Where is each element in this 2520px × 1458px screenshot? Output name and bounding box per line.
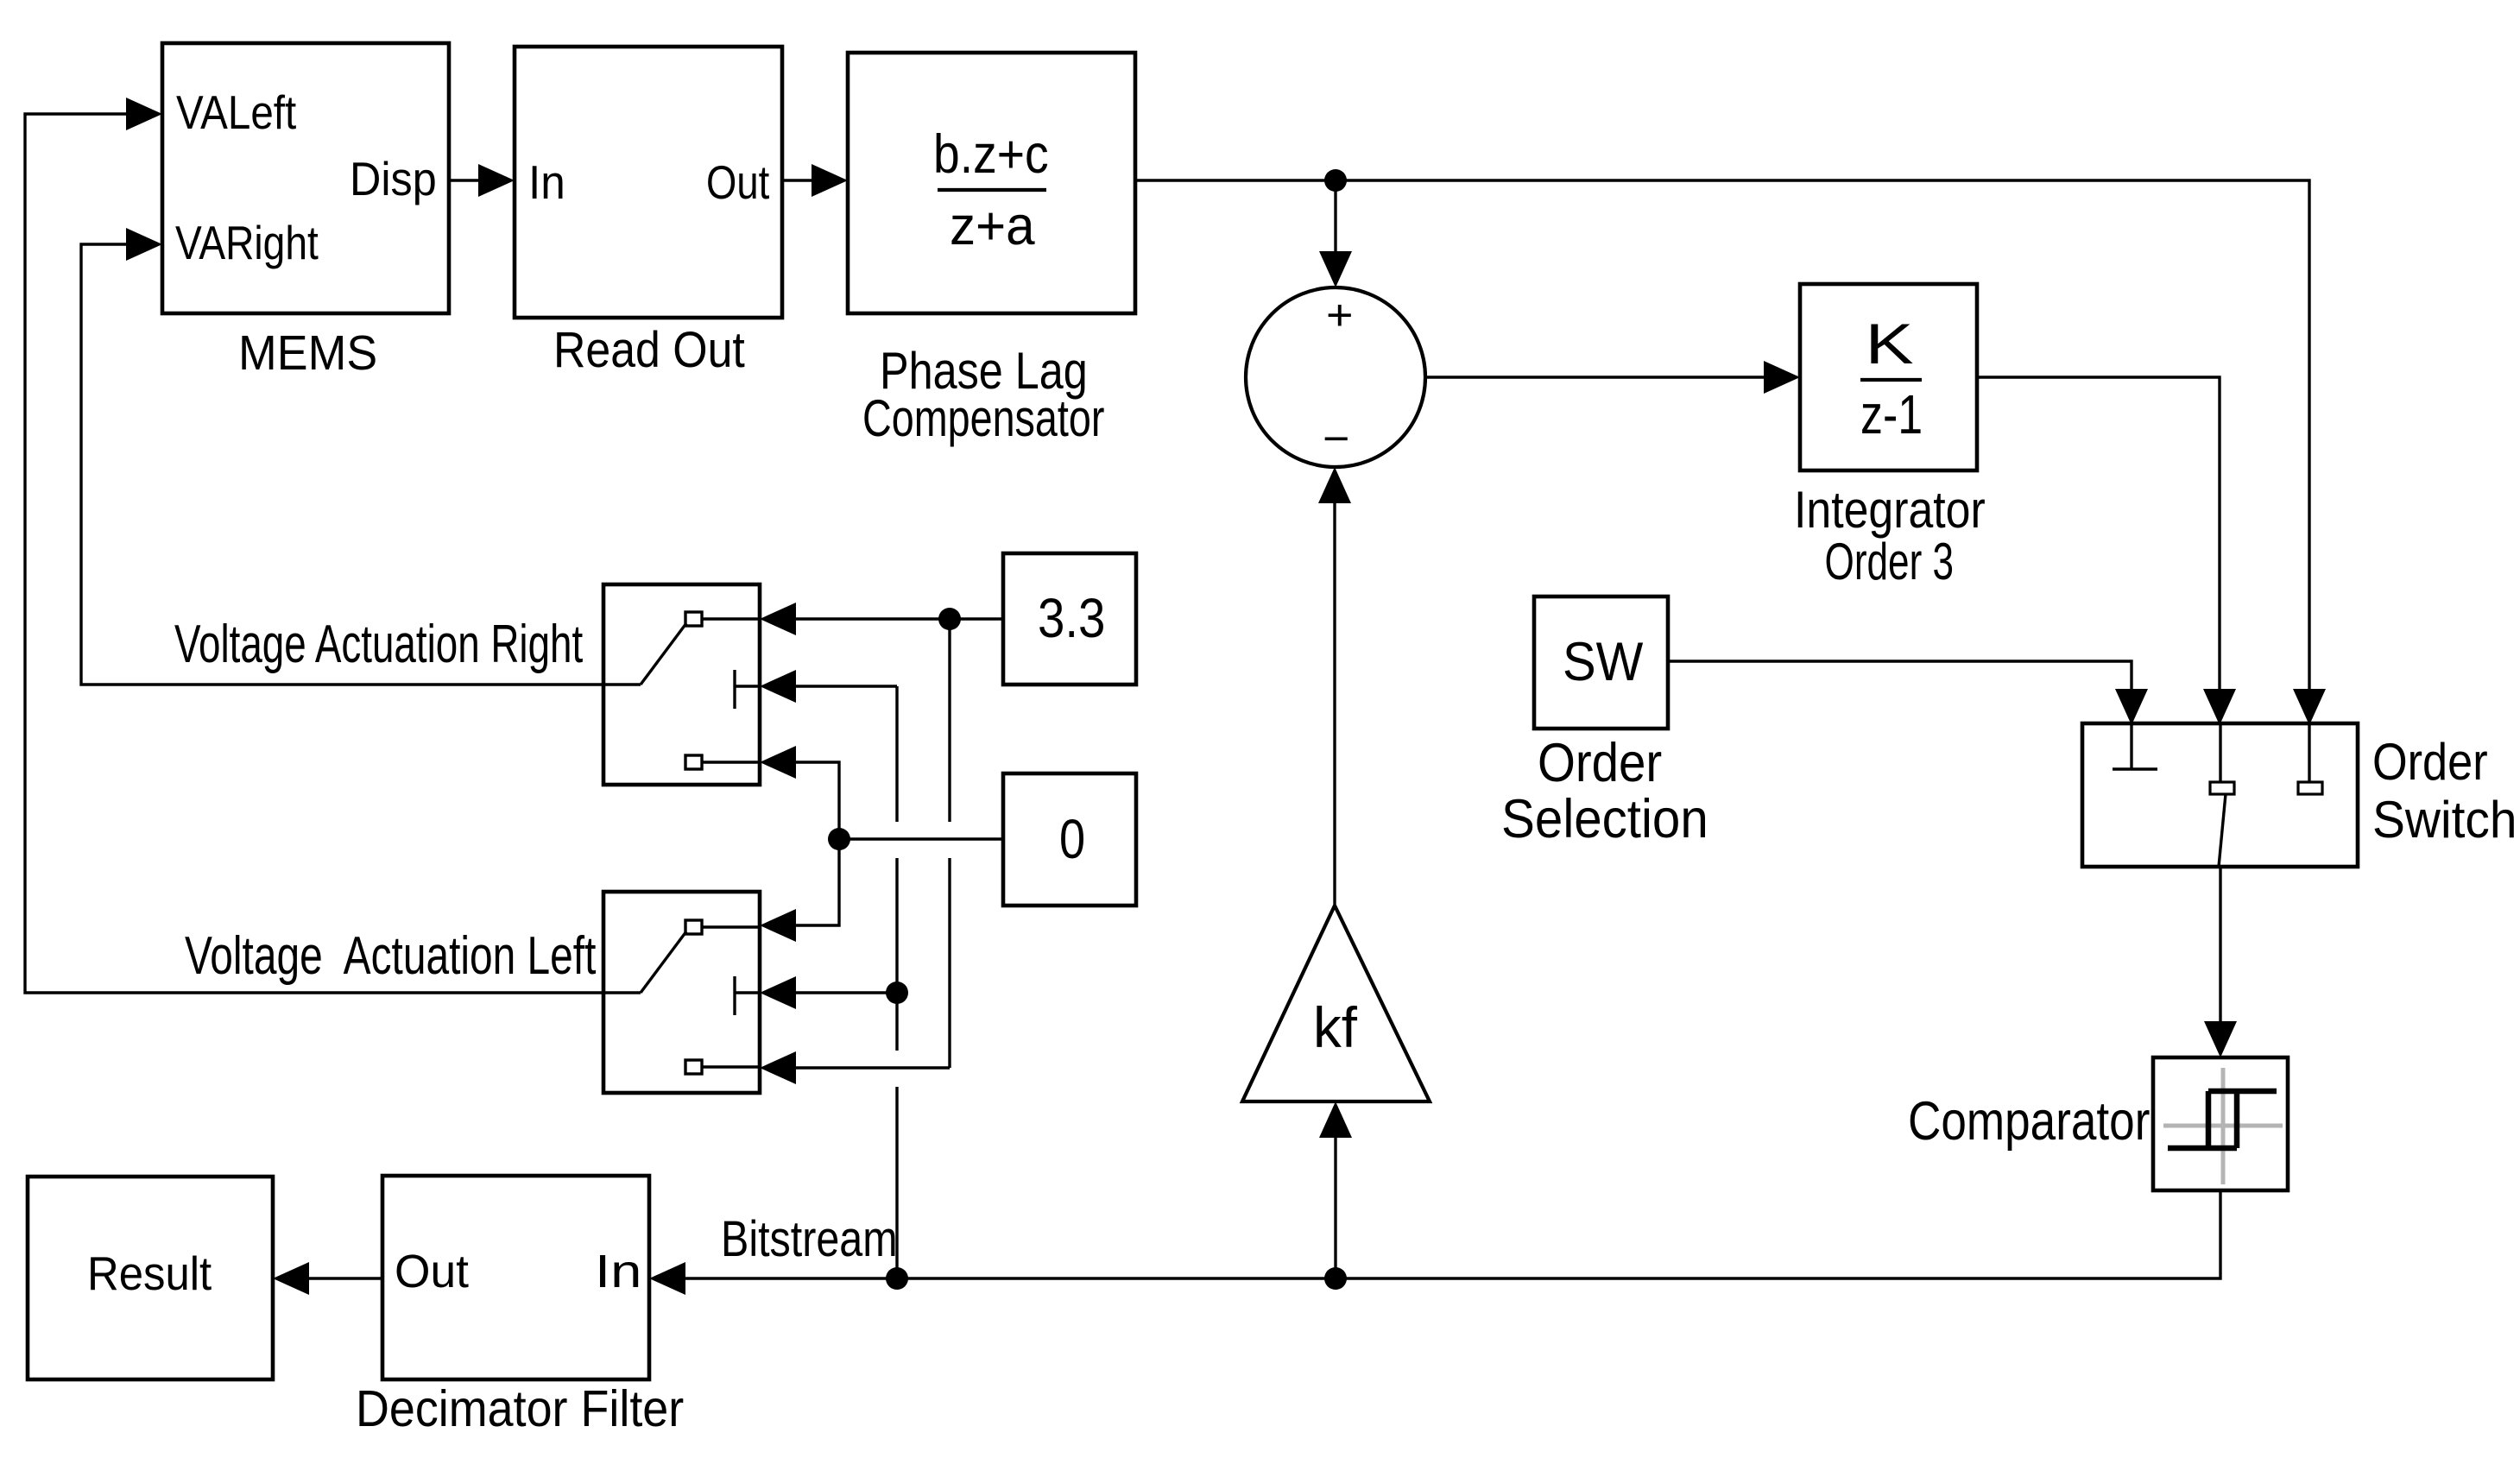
block SW constant bbox=[1534, 596, 1668, 729]
arrow into kf base bbox=[1319, 1101, 1352, 1138]
svg-text:Order: Order bbox=[2372, 733, 2488, 791]
svg-text:Compensator: Compensator bbox=[862, 389, 1104, 447]
svg-text:kf: kf bbox=[1313, 995, 1358, 1059]
wire Read Out Out to Phase Lag bbox=[782, 179, 815, 181]
block switch Voltage Actuation Right bbox=[603, 584, 760, 785]
block Decimator Filter bbox=[382, 1176, 649, 1379]
wire Phase Lag output to top-right corner bbox=[1135, 180, 2309, 691]
svg-text:Out: Out bbox=[395, 1246, 469, 1297]
arrow into Order Switch input 3 bbox=[2293, 689, 2326, 725]
switch1 threshold T horizontal bbox=[735, 685, 760, 687]
svg-text:Out: Out bbox=[706, 155, 769, 209]
junction dot at switch2 input 2 branch bbox=[886, 981, 908, 1004]
switch1 arm diagonal bbox=[641, 623, 686, 685]
svg-text:−: − bbox=[1323, 414, 1349, 463]
svg-text:VARight: VARight bbox=[175, 216, 319, 269]
wire SW output to Order Switch input 1 bbox=[1668, 661, 2132, 691]
svg-text:Comparator: Comparator bbox=[1908, 1091, 2150, 1152]
gain triangle kf bbox=[1242, 906, 1430, 1101]
arrow into switch1 input 3 bbox=[760, 746, 796, 779]
wire kf apex to sum bottom bbox=[1333, 500, 1336, 906]
arrow into switch1 input 2 bbox=[760, 670, 796, 703]
wire into switch1 input 2 bbox=[793, 685, 897, 687]
junction dot 3.3 branch bbox=[938, 608, 961, 630]
svg-text:SW: SW bbox=[1563, 632, 1644, 692]
block switch Voltage Actuation Left bbox=[603, 892, 760, 1093]
arrow into MEMS VARight bbox=[126, 228, 162, 261]
switch2 input-1 inner line bbox=[702, 925, 760, 928]
arrow into Comparator bbox=[2204, 1021, 2237, 1057]
wire Decimator Out to Result bbox=[306, 1277, 382, 1279]
relay icon hysteresis right vertical bbox=[2234, 1091, 2240, 1148]
order switch input-2 port square bbox=[2210, 782, 2234, 794]
svg-text:Switch: Switch bbox=[2372, 791, 2517, 849]
switch2 input-3 port square bbox=[685, 1060, 702, 1074]
svg-text:In: In bbox=[528, 155, 565, 209]
wire 0 branch down to switch2 input 1 bbox=[793, 839, 839, 925]
svg-text:Read Out: Read Out bbox=[553, 322, 745, 378]
order switch input-2 stub bbox=[2219, 723, 2221, 782]
wire into switch2 input 2 bbox=[793, 991, 897, 994]
svg-text:MEMS: MEMS bbox=[238, 325, 377, 381]
svg-text:z-1: z-1 bbox=[1860, 383, 1923, 445]
arrow into Decimator In bbox=[649, 1262, 685, 1295]
junction dot main line bbox=[1324, 169, 1347, 192]
arrow into Order Switch input 2 bbox=[2203, 689, 2236, 725]
arrow into sum top bbox=[1319, 251, 1352, 287]
wire Order Switch output to Comparator bbox=[2219, 867, 2221, 1025]
order switch contact arm bbox=[2219, 794, 2226, 867]
wire switch1 common to MEMS VARight bbox=[81, 244, 603, 685]
switch2 input-3 inner line bbox=[702, 1065, 760, 1068]
order switch input-1 T-bar bbox=[2113, 767, 2157, 770]
order switch input-1 stub bbox=[2130, 723, 2132, 769]
wire sum output to Integrator bbox=[1425, 376, 1767, 378]
relay icon gray vertical axis bbox=[2221, 1068, 2226, 1184]
junction dot 0 branch bbox=[828, 828, 850, 850]
svg-text:b.z+c: b.z+c bbox=[933, 124, 1049, 185]
svg-text:Result: Result bbox=[87, 1247, 212, 1300]
block MEMS (plant) bbox=[162, 43, 449, 313]
switch2 threshold T vertical bbox=[733, 976, 736, 1015]
arrow into switch1 input 1 bbox=[760, 603, 796, 635]
block Phase Lag Compensator bbox=[848, 53, 1135, 313]
svg-text:VALeft: VALeft bbox=[176, 85, 296, 139]
relay icon gray horizontal axis bbox=[2163, 1124, 2283, 1128]
wire junction down to sum bbox=[1334, 180, 1336, 255]
switch1 input-1 inner line bbox=[702, 617, 760, 620]
svg-text:Bitstream: Bitstream bbox=[721, 1211, 898, 1267]
block constant 0 bbox=[1003, 773, 1136, 906]
sum junction circle bbox=[1246, 287, 1425, 467]
svg-text:Voltage Actuation Right: Voltage Actuation Right bbox=[174, 615, 583, 674]
svg-text:3.3: 3.3 bbox=[1038, 587, 1106, 649]
wire Comparator output feedback to Decimator In bbox=[682, 1190, 2220, 1278]
svg-text:z+a: z+a bbox=[950, 196, 1036, 256]
switch2 input-1 port square bbox=[685, 920, 702, 934]
svg-text:Order: Order bbox=[1538, 733, 1662, 793]
block Read Out bbox=[515, 47, 782, 318]
svg-text:Disp: Disp bbox=[350, 152, 437, 205]
wire bitstream vertical up to switch1 input 2 (with hops) bbox=[895, 1087, 898, 1278]
svg-text:K: K bbox=[1866, 312, 1914, 376]
block Integrator Order 3 bbox=[1800, 284, 1977, 470]
fraction bar (Phase Lag) bbox=[938, 188, 1046, 192]
svg-text:Integrator: Integrator bbox=[1794, 481, 1986, 539]
wire 0 branch up to switch1 input 3 bbox=[793, 762, 839, 839]
switch1 threshold T vertical bbox=[733, 670, 736, 709]
block Comparator (relay) bbox=[2153, 1057, 2288, 1190]
svg-text:+: + bbox=[1326, 291, 1354, 339]
wire 0 output to corner bbox=[839, 837, 1003, 840]
junction dot feedback at kf branch bbox=[1324, 1267, 1347, 1290]
arrow into Order Switch input 1 bbox=[2115, 689, 2148, 725]
switch1 input-3 port square bbox=[685, 755, 702, 769]
switch2 common stub bbox=[603, 991, 641, 994]
arrow into Result bbox=[273, 1262, 309, 1295]
svg-text:In: In bbox=[595, 1246, 641, 1297]
wire switch2 common to MEMS VALeft bbox=[25, 114, 603, 993]
switch2 arm diagonal bbox=[641, 931, 686, 993]
svg-text:Voltage Actuation Left: Voltage Actuation Left bbox=[185, 926, 596, 986]
wire Integrator output to Order Switch input 2 bbox=[1977, 377, 2220, 691]
switch1 input-3 inner line bbox=[702, 761, 760, 763]
block Order Switch (multiport switch) bbox=[2082, 723, 2358, 867]
svg-text:Selection: Selection bbox=[1501, 789, 1708, 849]
svg-text:Decimator Filter: Decimator Filter bbox=[356, 1380, 684, 1437]
order switch input-3 port square bbox=[2298, 782, 2322, 794]
relay icon hysteresis lower line bbox=[2168, 1146, 2237, 1152]
wire MEMS Disp to Read Out In bbox=[449, 179, 482, 181]
wire 3.3 output to switch1 input 1 bbox=[793, 617, 1003, 620]
arrow into Phase Lag bbox=[812, 164, 848, 197]
switch1 input-1 port square bbox=[685, 612, 702, 626]
relay icon hysteresis left vertical bbox=[2206, 1091, 2212, 1148]
block Result bbox=[28, 1177, 273, 1379]
arrow into switch2 input 3 bbox=[760, 1051, 796, 1084]
arrow into sum bottom bbox=[1318, 467, 1351, 503]
arrow into switch2 input 1 bbox=[760, 909, 796, 942]
arrow into MEMS VALeft bbox=[126, 98, 162, 130]
arrow into Read Out In bbox=[478, 164, 515, 197]
arrow into switch2 input 2 bbox=[760, 976, 796, 1009]
fraction bar (Integrator) bbox=[1860, 378, 1922, 382]
switch2 threshold T horizontal bbox=[735, 991, 760, 994]
relay icon hysteresis upper line bbox=[2208, 1089, 2277, 1095]
junction dot bitstream bbox=[886, 1267, 908, 1290]
wire kf branch up bbox=[1334, 1134, 1336, 1278]
svg-text:0: 0 bbox=[1059, 808, 1085, 870]
arrow into Integrator bbox=[1764, 361, 1800, 394]
block constant 3.3 bbox=[1003, 553, 1136, 685]
order switch input-3 stub bbox=[2308, 723, 2310, 782]
switch1 common stub bbox=[603, 683, 641, 685]
svg-text:Order 3: Order 3 bbox=[1825, 533, 1955, 590]
wire 3.3 branch down to switch2 input 3 (with hop) bbox=[948, 619, 951, 822]
